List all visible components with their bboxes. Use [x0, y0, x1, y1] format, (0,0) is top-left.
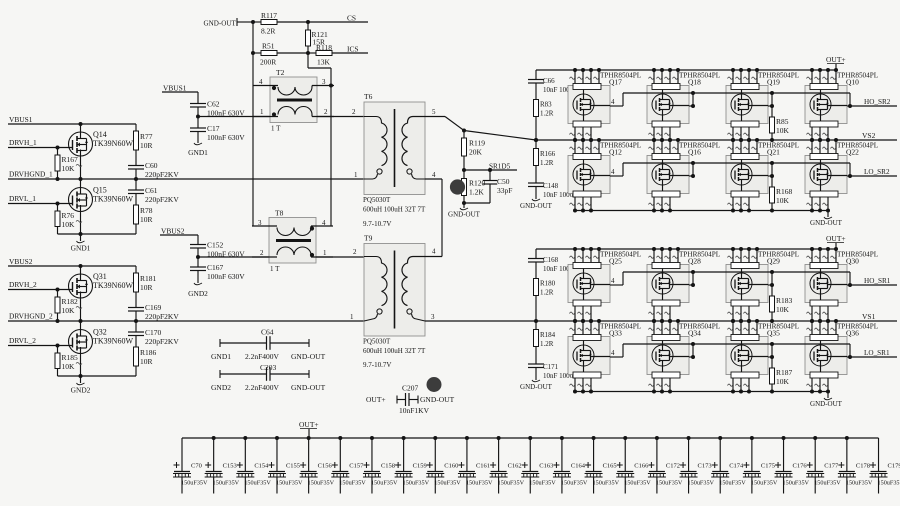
svg-text:200R: 200R [260, 58, 276, 67]
svg-text:220pF2KV: 220pF2KV [145, 170, 179, 179]
svg-text:VBUS1: VBUS1 [9, 115, 33, 124]
svg-text:10R: 10R [140, 215, 153, 224]
svg-text:TK39N60W: TK39N60W [93, 195, 133, 204]
svg-text:150uF35V: 150uF35V [213, 480, 240, 487]
svg-text:3: 3 [431, 313, 435, 321]
pin 1 T9 [350, 313, 354, 321]
svg-text:Q19: Q19 [767, 78, 780, 87]
svg-text:OUT+: OUT+ [826, 234, 846, 243]
capacitor C156 150uF35V [300, 436, 335, 494]
svg-text:R182: R182 [62, 297, 79, 306]
svg-text:150uF35V: 150uF35V [498, 480, 525, 487]
wire gate bus LO_SR1 [610, 342, 850, 359]
transistor Q29 TPHR8504PL [726, 247, 768, 323]
svg-text:ICS: ICS [347, 45, 359, 54]
svg-text:R168: R168 [776, 187, 793, 196]
svg-text:2: 2 [352, 108, 356, 116]
svg-text:C174: C174 [729, 463, 744, 470]
wire OUT+ rail [536, 248, 837, 250]
capacitor C62 100nF 630V [190, 92, 245, 118]
wire sense node to T2 pin 3 [308, 53, 331, 86]
svg-text:DRVH_1: DRVH_1 [9, 138, 37, 147]
transistor Q15 TK39N60W [69, 179, 134, 236]
svg-text:150uF35V: 150uF35V [751, 480, 778, 487]
svg-text:4: 4 [611, 349, 615, 357]
svg-text:Q17: Q17 [609, 78, 622, 87]
node CS [308, 14, 368, 23]
transformer T6 PQ5030T [363, 92, 426, 214]
svg-text:600uH 100uH 32T 7T: 600uH 100uH 32T 7T [363, 347, 426, 355]
label Q10 [837, 72, 878, 87]
svg-text:TK39N60W: TK39N60W [93, 139, 133, 148]
svg-text:CS: CS [347, 14, 356, 23]
value C64 [245, 352, 280, 361]
svg-text:150uF35V: 150uF35V [561, 480, 588, 487]
capacitor C166 150uF35V [616, 436, 651, 494]
svg-text:R180: R180 [540, 280, 556, 288]
svg-text:GND-OUT: GND-OUT [291, 383, 326, 392]
capacitor C170 220pF2KV [128, 321, 179, 347]
capacitor C163 150uF35V [521, 436, 556, 494]
svg-text:C66: C66 [543, 77, 555, 85]
label Q21 [758, 142, 799, 157]
node GND-OUT top [204, 18, 254, 28]
transistor Q25 TPHR8504PL [568, 247, 615, 323]
svg-text:VBUS1: VBUS1 [163, 84, 187, 93]
wire VS1 rail [536, 312, 897, 321]
node LO_SR2 [848, 168, 897, 178]
pin 2 T9 [353, 248, 357, 256]
wire GND-OUT rail VS2 [575, 210, 828, 212]
transistor Q18 TPHR8504PL [647, 68, 689, 142]
svg-text:C50: C50 [497, 177, 510, 186]
svg-text:C168: C168 [543, 256, 559, 264]
svg-text:GND-OUT: GND-OUT [810, 400, 843, 408]
capacitor C173 150uF35V [680, 436, 715, 494]
svg-text:C175: C175 [761, 463, 775, 470]
svg-text:Q18: Q18 [688, 78, 701, 87]
capacitor C154 150uF35V [236, 436, 271, 494]
svg-text:VS2: VS2 [862, 131, 876, 140]
svg-text:C17: C17 [207, 124, 220, 133]
wire VBUS2 rail [8, 264, 136, 268]
wire OUT+ rail [536, 69, 837, 71]
svg-text:GND-OUT: GND-OUT [291, 352, 326, 361]
svg-text:4: 4 [432, 248, 436, 256]
svg-text:10K: 10K [62, 362, 76, 371]
svg-text:TK39N60W: TK39N60W [93, 337, 133, 346]
label Q16 [679, 142, 720, 157]
ground GND2 c167 [188, 283, 208, 298]
transistor Q14 TK39N60W [69, 124, 134, 181]
resistor R76 10K [55, 204, 82, 235]
svg-text:T8: T8 [275, 209, 284, 218]
resistor R186 10R [134, 347, 157, 376]
svg-text:PQ5030T: PQ5030T [363, 196, 391, 204]
svg-text:10K: 10K [776, 305, 790, 314]
capacitor C66 10nF 1000V [528, 70, 578, 100]
svg-text:R76: R76 [62, 211, 75, 220]
svg-text:150uF35V: 150uF35V [593, 480, 620, 487]
svg-text:4: 4 [611, 168, 615, 176]
resistor R85 10K [770, 93, 790, 142]
capacitor C175 150uF35V [743, 436, 778, 494]
svg-text:R51: R51 [262, 42, 275, 51]
svg-text:100nF 630V: 100nF 630V [207, 133, 245, 142]
wire T9 pin 3 to VS1 node [425, 320, 536, 322]
transistor Q22 TPHR8504PL [805, 138, 847, 213]
svg-text:10K: 10K [62, 306, 76, 315]
capacitor C153 150uF35V [205, 436, 240, 494]
resistor R183 10K [770, 272, 793, 323]
wire C152/C167 node to T8 pin 2 [196, 255, 269, 259]
svg-text:R83: R83 [540, 101, 552, 109]
wire GND2 rail [58, 375, 137, 377]
svg-text:8.2R: 8.2R [261, 27, 275, 36]
pin 1 T6 [354, 171, 358, 179]
svg-text:150uF35V: 150uF35V [529, 480, 556, 487]
wire T8 pin 1 to T9 pin 2 [316, 256, 364, 258]
node DRVL_2 [9, 336, 36, 345]
svg-text:150uF35V: 150uF35V [846, 480, 873, 487]
svg-text:TK39N60W: TK39N60W [93, 281, 133, 290]
svg-text:R120: R120 [469, 179, 486, 188]
svg-text:5: 5 [432, 108, 436, 116]
transistor Q30 TPHR8504PL [805, 247, 847, 323]
label Q17 [600, 72, 641, 87]
svg-text:1.2R: 1.2R [540, 159, 554, 167]
svg-text:2: 2 [324, 108, 328, 116]
svg-text:10K: 10K [776, 377, 790, 386]
svg-text:2: 2 [260, 249, 264, 257]
svg-text:3: 3 [258, 219, 262, 227]
svg-text:R186: R186 [140, 348, 157, 357]
wire VS2 rail [536, 131, 897, 140]
svg-text:150uF35V: 150uF35V [244, 480, 271, 487]
pin 3 T2 [322, 78, 326, 86]
svg-text:C179: C179 [888, 463, 900, 470]
svg-text:T2: T2 [276, 68, 285, 77]
svg-text:1 T: 1 T [270, 265, 280, 273]
resistor R118 13K [308, 43, 368, 67]
svg-text:C166: C166 [634, 463, 649, 470]
svg-text:R119: R119 [469, 139, 485, 148]
svg-text:10K: 10K [62, 164, 76, 173]
svg-text:150uF35V: 150uF35V [656, 480, 683, 487]
pin 2 T8 [260, 249, 264, 257]
svg-text:9.7-10.7V: 9.7-10.7V [363, 361, 391, 369]
svg-text:GND-OUT: GND-OUT [204, 20, 237, 28]
svg-text:10nF1KV: 10nF1KV [399, 406, 430, 415]
svg-text:HO_SR2: HO_SR2 [864, 98, 891, 106]
resistor R182 10K [55, 290, 82, 324]
value T9 voltage [363, 361, 391, 369]
capacitor C64 2.2nF400V [220, 328, 309, 350]
svg-text:Q10: Q10 [846, 78, 859, 87]
resistor R78 10R [134, 205, 153, 234]
transistor Q32 TK39N60W [69, 321, 134, 378]
svg-text:C62: C62 [207, 100, 220, 109]
svg-text:Q25: Q25 [609, 257, 622, 266]
svg-text:Q30: Q30 [846, 257, 859, 266]
capacitor C159 150uF35V [395, 436, 430, 494]
svg-text:150uF35V: 150uF35V [466, 480, 493, 487]
svg-text:2.2nF400V: 2.2nF400V [245, 352, 280, 361]
transistor Q31 TK39N60W [69, 266, 134, 323]
svg-text:C148: C148 [543, 182, 559, 190]
svg-text:10R: 10R [140, 283, 153, 292]
node LO_SR1 [848, 349, 897, 359]
resistor R166 1.2R [534, 140, 556, 183]
pin 1 T8 [323, 249, 327, 257]
svg-text:10K: 10K [776, 196, 790, 205]
svg-text:150uF35V: 150uF35V [371, 480, 398, 487]
svg-text:Q36: Q36 [846, 329, 859, 338]
capacitor C162 150uF35V [490, 436, 525, 494]
capacitor C17 100nF 630V [190, 117, 245, 144]
svg-text:600uH 100uH 32T 7T: 600uH 100uH 32T 7T [363, 206, 426, 214]
svg-text:20K: 20K [469, 148, 483, 157]
svg-text:1: 1 [354, 171, 358, 179]
svg-text:GND2: GND2 [188, 289, 208, 298]
svg-text:GND1: GND1 [211, 352, 231, 361]
capacitor C167 100nF 630V [190, 257, 245, 283]
svg-text:4: 4 [322, 219, 326, 227]
svg-text:150uF35V: 150uF35V [403, 480, 430, 487]
resistor R187 10K [770, 344, 793, 394]
pin 3 T9 [431, 313, 435, 321]
node DRVHGND_2 [9, 312, 53, 321]
testpoint pad A [450, 179, 465, 194]
svg-text:R187: R187 [776, 368, 793, 377]
capacitor C172 150uF35V [648, 436, 683, 494]
ground GND2 [71, 376, 91, 395]
svg-text:10K: 10K [776, 126, 790, 135]
svg-text:C160: C160 [444, 463, 458, 470]
svg-text:150uF35V: 150uF35V [339, 480, 366, 487]
node DRVHGND_1 [9, 170, 53, 179]
svg-text:C165: C165 [603, 463, 617, 470]
svg-text:1 T: 1 T [271, 125, 281, 133]
svg-text:R183: R183 [776, 296, 793, 305]
wire T2 pin 2 to T6 pin 2 [317, 116, 364, 118]
svg-text:2.2nF400V: 2.2nF400V [245, 383, 280, 392]
svg-text:VBUS2: VBUS2 [9, 257, 33, 266]
svg-text:C203: C203 [260, 363, 277, 372]
wire DRVHGND_1 to T6 pin 1 [8, 178, 364, 180]
transistor Q12 TPHR8504PL [568, 138, 615, 213]
capacitor C168 10nF 1000V [528, 249, 578, 279]
label Q35 [758, 323, 799, 338]
svg-text:R185: R185 [62, 353, 79, 362]
label Q30 [837, 251, 878, 266]
svg-text:C156: C156 [318, 463, 333, 470]
svg-text:220pF2KV: 220pF2KV [145, 337, 179, 346]
wire DRVL_1 [8, 202, 73, 206]
svg-text:9.7-10.7V: 9.7-10.7V [363, 220, 391, 228]
resistor R120 1.2K [462, 170, 486, 203]
svg-text:R78: R78 [140, 206, 153, 215]
wire OUT+ cap rail [182, 437, 879, 439]
svg-text:C172: C172 [666, 463, 680, 470]
pin 4 T2 [259, 78, 263, 86]
transistor Q36 TPHR8504PL [805, 319, 847, 394]
transistor Q16 TPHR8504PL [647, 138, 689, 213]
resistor R121 15R [306, 22, 329, 53]
svg-text:C159: C159 [413, 463, 427, 470]
wire GND1 rail [58, 233, 137, 235]
svg-text:R166: R166 [540, 150, 556, 158]
svg-text:C178: C178 [856, 463, 870, 470]
svg-text:Q21: Q21 [767, 148, 780, 157]
svg-text:DRVL_2: DRVL_2 [9, 336, 36, 345]
resistor R119 20K [462, 131, 486, 171]
node SR1D5 [462, 163, 517, 173]
svg-text:220pF2KV: 220pF2KV [145, 195, 179, 204]
node DRVH_1 [9, 138, 37, 147]
capacitor C176 150uF35V [775, 436, 810, 494]
capacitor C207 10nF1KV [366, 384, 455, 416]
pin 3 T8 [258, 219, 262, 227]
node VBUS2 [9, 257, 33, 266]
svg-text:C161: C161 [476, 463, 490, 470]
svg-text:Q31: Q31 [93, 272, 107, 281]
node VBUS1 [9, 115, 33, 124]
svg-text:C177: C177 [824, 463, 839, 470]
label Q12 [600, 142, 641, 157]
label Q34 [679, 323, 720, 338]
svg-text:C155: C155 [286, 463, 300, 470]
svg-text:C153: C153 [223, 463, 237, 470]
svg-text:R181: R181 [140, 274, 157, 283]
testpoint pad B [427, 377, 442, 392]
svg-text:150uF35V: 150uF35V [181, 480, 208, 487]
label Q19 [758, 72, 799, 87]
svg-text:GND-OUT: GND-OUT [810, 219, 843, 227]
wire GND-OUT rail VS1 [575, 391, 828, 393]
svg-text:150uF35V: 150uF35V [878, 480, 900, 487]
svg-text:C64: C64 [261, 328, 274, 337]
svg-text:GND2: GND2 [211, 383, 231, 392]
capacitor C179 150uF35V [870, 438, 900, 494]
svg-text:4: 4 [259, 78, 263, 86]
svg-text:GND-OUT: GND-OUT [420, 395, 455, 404]
svg-text:1: 1 [350, 313, 354, 321]
svg-text:DRVL_1: DRVL_1 [9, 194, 36, 203]
svg-text:Q34: Q34 [688, 329, 701, 338]
transistor Q19 TPHR8504PL [726, 68, 768, 142]
svg-text:C169: C169 [145, 303, 162, 312]
wire gate bus HO_SR2 [610, 91, 850, 108]
svg-text:220pF2KV: 220pF2KV [145, 312, 179, 321]
svg-text:DRVHGND_1: DRVHGND_1 [9, 170, 53, 179]
ground GND2 c203 [211, 383, 231, 392]
capacitor C165 150uF35V [585, 436, 620, 494]
transistor Q21 TPHR8504PL [726, 138, 768, 213]
transistor Q35 TPHR8504PL [726, 319, 768, 394]
svg-text:GND-OUT: GND-OUT [520, 202, 553, 210]
svg-text:DRVHGND_2: DRVHGND_2 [9, 312, 53, 321]
svg-text:1: 1 [323, 249, 327, 257]
wire gate bus LO_SR2 [610, 161, 850, 178]
node OUT+ caps [299, 420, 319, 438]
svg-text:GND-OUT: GND-OUT [520, 383, 553, 391]
svg-text:C207: C207 [402, 384, 419, 393]
wire DRVH_2 [8, 288, 73, 292]
svg-text:4: 4 [611, 98, 615, 106]
svg-text:C170: C170 [145, 328, 162, 337]
ground GND-OUT sr1d5 [448, 201, 481, 219]
wire DRVL_2 [8, 344, 73, 348]
capacitor C152 100nF 630V [190, 235, 245, 259]
resistor R184 1.2R [534, 321, 556, 364]
svg-text:R77: R77 [140, 132, 153, 141]
svg-text:Q15: Q15 [93, 186, 107, 195]
svg-text:C60: C60 [145, 161, 158, 170]
capacitor C50 33pF [464, 170, 512, 203]
svg-text:Q22: Q22 [846, 148, 859, 157]
label Q28 [679, 251, 720, 266]
svg-text:150uF35V: 150uF35V [719, 480, 746, 487]
ground GND-OUT VS1 block [810, 392, 843, 409]
svg-text:VS1: VS1 [862, 312, 876, 321]
capacitor C60 220pF2KV [128, 161, 179, 181]
transistor Q10 TPHR8504PL [805, 68, 847, 142]
pin 1 T2 [260, 108, 264, 116]
resistor R181 10R [134, 266, 157, 308]
svg-text:150uF35V: 150uF35V [434, 480, 461, 487]
svg-text:1.2R: 1.2R [540, 340, 554, 348]
svg-text:3: 3 [322, 78, 326, 86]
pin 2 T6 [352, 108, 356, 116]
resistor R168 10K [770, 163, 793, 213]
transformer T9 PQ5030T [363, 234, 426, 356]
svg-text:C171: C171 [543, 363, 559, 371]
svg-text:T6: T6 [364, 92, 373, 101]
node ICS [347, 45, 359, 54]
ground GND-OUT VS2 block [810, 211, 843, 228]
pin 4 T8 [322, 219, 326, 227]
node DRVL_1 [9, 194, 36, 203]
svg-text:T9: T9 [364, 234, 373, 243]
svg-text:Q29: Q29 [767, 257, 780, 266]
node VBUS1 mid [162, 84, 198, 93]
capacitor C177 150uF35V [806, 436, 841, 494]
wire T6 pin 4 to T9 pin 4 [425, 179, 442, 257]
svg-text:GND-OUT: GND-OUT [448, 211, 481, 219]
svg-text:OUT+: OUT+ [826, 55, 846, 64]
capacitor C169 220pF2KV [128, 303, 179, 323]
svg-text:13K: 13K [317, 58, 331, 67]
resistor R180 1.2R [534, 279, 556, 324]
svg-text:C152: C152 [207, 241, 224, 250]
svg-text:GND2: GND2 [71, 386, 91, 395]
transistor Q34 TPHR8504PL [647, 319, 689, 394]
svg-text:SR1D5: SR1D5 [489, 163, 511, 171]
value T6 voltage [363, 220, 391, 228]
svg-text:C70: C70 [191, 463, 202, 470]
svg-text:33pF: 33pF [497, 186, 512, 195]
value C203 [245, 383, 280, 392]
wire DRVH_1 [8, 146, 73, 150]
ground GND1 [71, 234, 91, 253]
svg-text:GND1: GND1 [71, 244, 91, 253]
svg-text:PQ5030T: PQ5030T [363, 338, 391, 346]
pin 4 T6 [432, 171, 436, 179]
svg-text:C176: C176 [793, 463, 808, 470]
node HO_SR1 [848, 277, 897, 287]
resistor R77 10R [134, 124, 153, 166]
